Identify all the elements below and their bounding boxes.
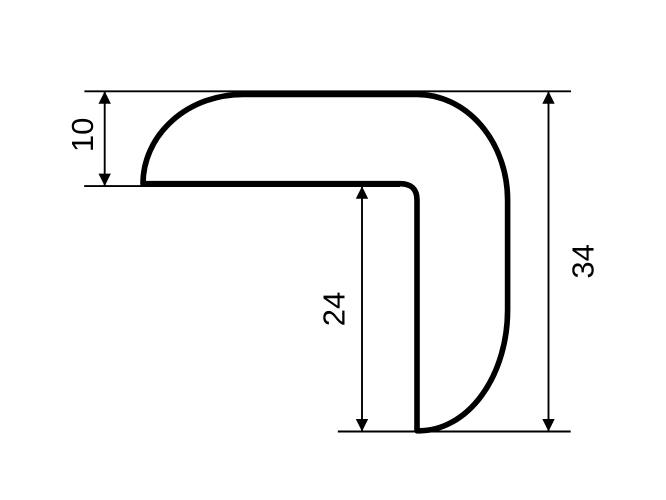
- dimension line 10: [104, 91, 106, 186]
- profile outline: [143, 94, 508, 430]
- svg-text:34: 34: [565, 244, 600, 278]
- extension line top: [84, 90, 571, 92]
- svg-text:10: 10: [65, 118, 100, 152]
- svg-text:24: 24: [317, 292, 352, 326]
- dimension line 34: [548, 91, 550, 431]
- extension line middle: [84, 185, 400, 187]
- extension line bottom: [338, 431, 571, 433]
- dimension line 24: [361, 186, 363, 431]
